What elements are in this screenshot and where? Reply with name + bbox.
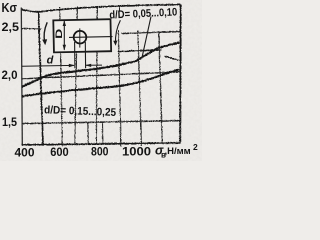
- dimension d line left with arrow: [22, 64, 102, 67]
- dimension D line with arrows: [63, 20, 66, 50]
- gridline vertical v3: [96, 6, 97, 144]
- curve d/D=0.05-0.10 upper: [21, 42, 179, 86]
- gridline vertical v6: [159, 31, 163, 143]
- hole circle: [74, 31, 87, 44]
- tick stub lower band x88: [87, 122, 90, 143]
- hole edge extension right: [84, 42, 86, 68]
- svg-text:1000: 1000: [122, 144, 151, 158]
- inset box (bar with transverse hole): [22, 19, 113, 68]
- svg-text:1,5: 1,5: [2, 115, 17, 129]
- hole crosshair horizontal: [69, 36, 113, 39]
- axis tick 2.5 left: [22, 27, 42, 30]
- svg-text:400: 400: [15, 145, 35, 159]
- frame top: [21, 4, 180, 11]
- svg-text:800: 800: [91, 145, 109, 159]
- gridline vertical v4: [118, 30, 121, 147]
- leader curved arrow to upper curve: [115, 20, 120, 43]
- leader straight from 0,05 text to curve: [142, 17, 151, 59]
- svg-text:,Н/мм: ,Н/мм: [165, 146, 191, 157]
- hole edge extension left: [74, 42, 76, 68]
- svg-text:d: d: [47, 55, 54, 67]
- tick stub top v4: [118, 5, 120, 10]
- svg-text:2: 2: [193, 142, 198, 152]
- gridline vertical v5: [138, 30, 142, 145]
- gridline vertical v2: [75, 6, 78, 144]
- svg-text:2,0: 2,0: [2, 68, 18, 82]
- svg-text:Kσ: Kσ: [2, 0, 18, 15]
- gridline horizontal 1.5: [22, 120, 180, 123]
- svg-text:D: D: [54, 29, 65, 39]
- svg-text:2,5: 2,5: [2, 20, 20, 34]
- frame right: [179, 4, 182, 142]
- svg-text:600: 600: [50, 145, 69, 159]
- frame left: [38, 12, 42, 145]
- curve branch d/D=0,05 upper short line: [118, 50, 162, 52]
- curve d/D=0.15-0.25 lower: [21, 69, 178, 96]
- gridline horizontal 2.5: [121, 31, 180, 33]
- frame bottom: [22, 143, 180, 145]
- hole crosshair vertical: [79, 28, 81, 47]
- table rule left margin: [21, 8, 22, 145]
- gridline vertical v1: [60, 7, 63, 146]
- scan noise overlay: [0, 0, 1, 1]
- gridline horizontal 2.0: [22, 72, 180, 79]
- tick stub lower band x102: [101, 122, 104, 144]
- short branch segment near right frame (0,25 fan-out): [164, 56, 178, 60]
- moment curved arrow left of box: [44, 22, 47, 42]
